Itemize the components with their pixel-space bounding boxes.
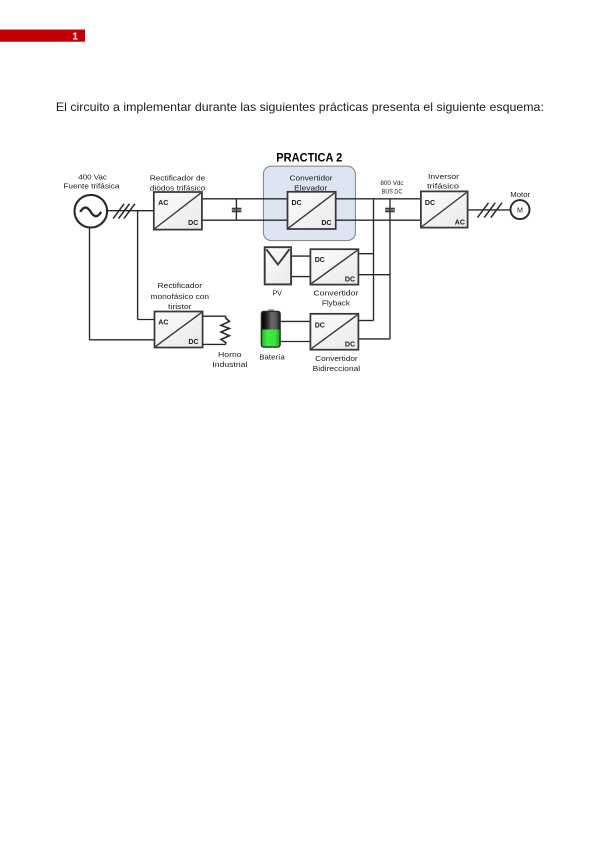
svg-text:Bidireccional: Bidireccional [313, 364, 361, 373]
svg-text:El circuito a implementar dura: El circuito a implementar durante las si… [56, 100, 544, 114]
svg-text:PRACTICA 2: PRACTICA 2 [276, 150, 342, 164]
svg-text:DC: DC [292, 198, 302, 207]
svg-text:tiristor: tiristor [168, 302, 192, 311]
svg-text:DC: DC [315, 320, 325, 329]
svg-text:Convertidor: Convertidor [315, 354, 358, 363]
svg-text:DC: DC [345, 340, 355, 349]
svg-text:800 Vdc: 800 Vdc [380, 180, 404, 187]
svg-text:Motor: Motor [510, 190, 530, 199]
svg-text:M: M [517, 205, 523, 214]
svg-text:monofásico con: monofásico con [151, 292, 210, 301]
svg-text:PV: PV [272, 288, 282, 297]
svg-text:DC: DC [315, 255, 325, 264]
svg-text:diodos trifásico: diodos trifásico [150, 183, 206, 192]
svg-text:DC: DC [321, 218, 331, 227]
svg-text:Elevador: Elevador [294, 183, 328, 192]
svg-text:DC: DC [188, 337, 198, 346]
svg-text:DC: DC [425, 198, 435, 207]
svg-text:Flyback: Flyback [322, 299, 350, 308]
svg-text:Fuente trifásica: Fuente trifásica [63, 182, 119, 191]
svg-text:AC: AC [158, 317, 168, 326]
svg-text:AC: AC [158, 198, 168, 207]
svg-text:Rectificador: Rectificador [158, 281, 203, 290]
svg-text:trifásico: trifásico [427, 181, 459, 190]
svg-text:Convertidor: Convertidor [313, 289, 359, 298]
svg-text:DC: DC [345, 275, 355, 284]
svg-text:Rectificador de: Rectificador de [150, 173, 206, 182]
svg-text:BUS DC: BUS DC [382, 189, 403, 196]
svg-text:1: 1 [72, 31, 78, 43]
svg-text:AC: AC [455, 218, 465, 227]
svg-text:Convertidor: Convertidor [290, 173, 334, 182]
svg-text:400 Vac: 400 Vac [78, 172, 107, 181]
svg-text:Inversor: Inversor [428, 172, 460, 181]
svg-text:Industrial: Industrial [212, 360, 247, 369]
svg-text:DC: DC [188, 218, 198, 227]
svg-text:Horno: Horno [218, 350, 242, 359]
svg-text:Batería: Batería [259, 353, 285, 362]
